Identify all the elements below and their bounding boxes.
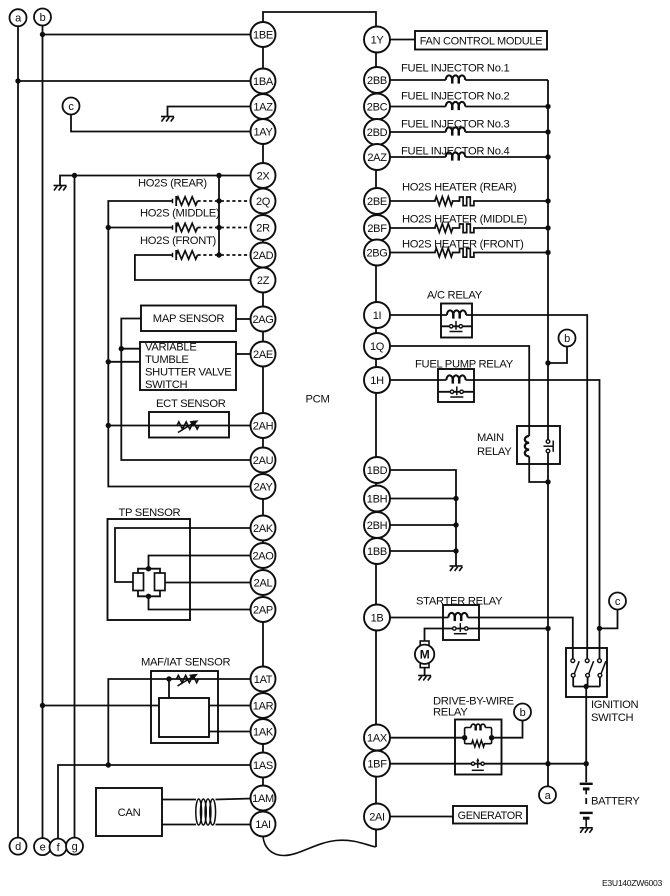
wire fuel pump contact lead: [438, 391, 474, 393]
PCM pin 2BD: [364, 119, 390, 145]
svg-text:d: d: [15, 841, 21, 853]
PCM pin 1BF: [364, 751, 390, 777]
wire 2R row: [108, 227, 172, 229]
svg-text:HO2S HEATER (MIDDLE): HO2S HEATER (MIDDLE): [402, 214, 528, 226]
wire 2AL row: [165, 582, 252, 584]
HO2S (MIDDLE) sensor cell 2R: [173, 223, 177, 233]
wire 1Q row to main relay: [390, 346, 529, 436]
svg-text:HO2S (REAR): HO2S (REAR): [138, 178, 207, 190]
wire 2X row shield: [60, 176, 252, 186]
PCM pin 1BB: [364, 538, 390, 564]
wire 2R dashed shield: [198, 227, 253, 229]
node b-1BE junction: [40, 32, 45, 37]
PCM pin 2AE: [251, 342, 276, 367]
CAN module box: [96, 788, 162, 836]
PCM pin 1AT: [251, 667, 276, 692]
wire net b vertical (left): [42, 26, 44, 839]
wire 2AK row: [115, 528, 252, 582]
wire VTSV lead 2: [108, 361, 140, 363]
node injector2 junction: [545, 104, 550, 109]
svg-text:c: c: [68, 101, 74, 113]
wire 1BE row to b: [43, 34, 253, 36]
svg-text:2AO: 2AO: [252, 550, 274, 562]
wire fuel injector No.4 row: [390, 156, 548, 158]
svg-text:2AY: 2AY: [253, 481, 273, 493]
svg-text:2BC: 2BC: [367, 101, 388, 113]
wire shield bus vertical: [218, 176, 220, 256]
wire A/C contact lead: [441, 325, 472, 327]
node a-1BA junction: [15, 78, 20, 83]
wire VTSV to 2AE: [236, 353, 252, 355]
node ECT junction: [106, 423, 111, 428]
PCM pin 2AZ: [364, 144, 390, 170]
wire 1BH row: [390, 498, 456, 500]
PCM pin 2AO: [251, 543, 276, 568]
connector c right: [609, 593, 626, 610]
DBW relay resistor: [472, 740, 485, 747]
node TP top junction: [146, 566, 151, 571]
svg-text:2R: 2R: [256, 222, 270, 234]
svg-text:ECT SENSOR: ECT SENSOR: [156, 398, 226, 410]
PCM pin 1Q: [364, 333, 390, 359]
wire starter to motor: [425, 629, 444, 642]
HO2S heater (REAR) element: [460, 197, 474, 206]
svg-text:E3U140ZW6003: E3U140ZW6003: [602, 878, 662, 888]
svg-text:2X: 2X: [257, 170, 271, 182]
PCM pin 1AM: [251, 786, 276, 811]
svg-text:2Z: 2Z: [257, 275, 270, 287]
svg-text:HO2S HEATER (REAR): HO2S HEATER (REAR): [402, 182, 517, 194]
drive-by-wire relay box: [455, 720, 502, 775]
svg-text:1Q: 1Q: [370, 341, 385, 353]
svg-text:2AP: 2AP: [253, 604, 273, 616]
node VTSV lead2 junction: [106, 359, 111, 364]
PCM pin 1B: [364, 605, 390, 631]
HO2S heater (REAR) resistor: [435, 197, 453, 206]
svg-text:SWITCH: SWITCH: [145, 379, 188, 391]
TP sensor element left: [133, 573, 144, 591]
ignition switch box: [566, 648, 607, 697]
TP sensor box: [108, 519, 191, 620]
PCM pin 1I: [364, 302, 390, 328]
connector e: [34, 838, 51, 855]
node shield 2R junction: [216, 225, 221, 230]
PCM pin 2R: [251, 215, 276, 240]
wire ignition pole3 down: [599, 677, 601, 686]
node shield 2Q junction: [216, 198, 221, 203]
PCM pin 2AH: [251, 413, 276, 438]
svg-text:HO2S HEATER (FRONT): HO2S HEATER (FRONT): [402, 239, 524, 251]
wire 1AK row: [209, 731, 252, 733]
node 1BF bus junction: [545, 761, 550, 766]
main relay coil: [525, 436, 529, 456]
wire net g vertical: [74, 176, 76, 838]
PCM pin 2AG: [251, 307, 276, 332]
wire MAF left lead to b net: [43, 705, 160, 707]
wire PCM right pin column: [375, 27, 377, 848]
PCM pin 2Q: [251, 189, 276, 214]
node IAT junction: [166, 676, 171, 681]
HO2S heater (FRONT) resistor: [435, 248, 453, 257]
ground at 2X shield: [54, 186, 67, 191]
MAP sensor box: [141, 306, 236, 332]
svg-text:MAP SENSOR: MAP SENSOR: [153, 313, 225, 325]
ignition switch pole 3: [598, 659, 606, 677]
PCM pin 1BD: [364, 457, 390, 483]
A/C relay contact: [450, 321, 463, 332]
starter relay coil: [448, 613, 467, 621]
svg-text:FUEL INJECTOR No.1: FUEL INJECTOR No.1: [401, 63, 509, 75]
PCM pin 2AK: [251, 516, 276, 541]
svg-text:CAN: CAN: [118, 807, 141, 819]
HO2S (REAR) sensor cell 2Q: [173, 196, 177, 206]
node injector3 junction: [545, 129, 550, 134]
ignition switch pole 2: [585, 659, 593, 677]
MAF/IAT outer box: [151, 671, 218, 743]
PCM pin 2AP: [251, 597, 276, 622]
wire HO2S heater (REAR) row: [390, 200, 548, 202]
wire fuel injector No.2 row: [390, 106, 548, 108]
wire ignition pole2 down: [587, 677, 589, 686]
svg-text:1AR: 1AR: [253, 700, 274, 712]
wire b to battery bus: [548, 347, 567, 364]
wire sensor return bus: [108, 228, 252, 487]
HO2S (REAR) resistor: [176, 197, 197, 205]
svg-text:RELAY: RELAY: [433, 707, 468, 719]
svg-text:1BF: 1BF: [367, 759, 387, 771]
svg-text:VARIABLE: VARIABLE: [145, 342, 197, 354]
svg-text:FAN CONTROL MODULE: FAN CONTROL MODULE: [420, 35, 543, 47]
fuel pump relay coil: [446, 375, 465, 383]
node 2Q-2R junction: [106, 225, 111, 230]
svg-text:BATTERY: BATTERY: [591, 796, 640, 808]
wire 1AZ row to ground: [168, 107, 253, 117]
PCM pin 2AU: [251, 448, 276, 473]
wire 2Q left lead: [108, 201, 172, 228]
wire VTSV lead 1: [121, 348, 140, 350]
PCM pin 2AD: [251, 243, 276, 268]
wire ignition to battery: [585, 687, 587, 783]
svg-text:2AL: 2AL: [254, 577, 273, 589]
wire fuel injector No.3 row: [390, 131, 548, 133]
wire 2Q dashed shield: [198, 200, 253, 202]
svg-text:1AI: 1AI: [255, 819, 271, 831]
wire IAT to MAF inner box: [168, 679, 170, 698]
wire CAN low right: [216, 824, 253, 826]
svg-text:c: c: [615, 596, 621, 608]
wire c to 1AY row: [71, 115, 252, 132]
wire TP top link: [138, 569, 160, 573]
wire PCM bottom break squiggle: [263, 837, 376, 856]
wire 1Y row: [390, 39, 415, 41]
fuel injector No.3 coil: [446, 127, 466, 135]
PCM pin 1BA: [251, 69, 276, 94]
wire HO2S heater (FRONT) row: [390, 252, 548, 254]
svg-text:TUMBLE: TUMBLE: [145, 354, 189, 366]
wire TP bottom link: [138, 591, 160, 597]
node c junction: [597, 626, 602, 631]
node g-2X junction: [72, 173, 77, 178]
PCM pin 1AS: [251, 753, 276, 778]
svg-text:1Y: 1Y: [371, 34, 385, 46]
svg-text:2BE: 2BE: [367, 196, 387, 208]
connector b at DBW relay: [514, 704, 531, 721]
HO2S (MIDDLE) resistor: [176, 223, 197, 231]
wire battery bus upper: [547, 80, 549, 440]
svg-text:1AX: 1AX: [367, 732, 388, 744]
main relay contact: [544, 440, 554, 453]
HO2S heater (FRONT) element: [460, 249, 474, 258]
PCM pin 2BB: [364, 67, 390, 93]
fuel injector No.2 coil: [446, 102, 466, 110]
starter relay contact: [453, 623, 468, 634]
svg-text:b: b: [40, 12, 46, 24]
node starter contact junction: [545, 626, 550, 631]
wire 1BB row: [390, 550, 456, 552]
svg-text:RELAY: RELAY: [477, 446, 512, 458]
svg-text:1AZ: 1AZ: [253, 101, 273, 113]
node 2BH junction: [453, 522, 458, 527]
svg-text:2AZ: 2AZ: [367, 152, 387, 164]
svg-text:MAIN: MAIN: [477, 432, 504, 444]
svg-text:M: M: [420, 648, 430, 662]
TP sensor element right: [155, 573, 166, 591]
svg-text:2AU: 2AU: [253, 455, 274, 467]
PCM pin 2Z: [251, 268, 276, 293]
connector a bottom: [539, 786, 556, 803]
svg-text:A/C RELAY: A/C RELAY: [427, 290, 483, 302]
wire ECT row: [108, 425, 252, 427]
svg-text:MAF/IAT SENSOR: MAF/IAT SENSOR: [141, 657, 230, 669]
node e-1AR junction: [40, 703, 45, 708]
node TP bottom junction: [146, 594, 151, 599]
wire 1AT row: [108, 679, 252, 765]
PCM pin 2AY: [251, 474, 276, 499]
node shield top junction: [216, 173, 221, 178]
svg-text:2AK: 2AK: [253, 523, 274, 535]
wire CAN low: [162, 824, 196, 826]
wire 2AO row: [149, 556, 253, 569]
node DBW left: [462, 735, 467, 740]
battery: [580, 784, 593, 827]
ECT thermistor: [177, 420, 199, 432]
wire 1I row: [390, 315, 587, 659]
PCM pin 1AX: [364, 725, 390, 751]
wire motor to ground: [424, 668, 426, 676]
wire 2AD left lead to 2Z: [135, 255, 252, 280]
node shield 2AD junction: [216, 252, 221, 257]
HO2S (FRONT) resistor: [176, 251, 197, 259]
wire 2AI row: [390, 816, 453, 818]
svg-text:2BG: 2BG: [366, 247, 387, 259]
svg-text:2AI: 2AI: [369, 811, 385, 823]
node 1BB junction: [453, 548, 458, 553]
svg-text:IGNITION: IGNITION: [591, 699, 639, 711]
wire DBW to b: [492, 721, 523, 738]
PCM pin 1AK: [251, 719, 276, 744]
PCM pin 1Y: [364, 27, 390, 53]
wire starter contact row: [443, 628, 548, 630]
svg-text:1BA: 1BA: [253, 76, 274, 88]
svg-text:2BH: 2BH: [367, 520, 388, 532]
connector g: [66, 838, 83, 855]
PCM pin 2BG: [364, 240, 390, 266]
svg-text:2Q: 2Q: [256, 196, 271, 208]
svg-text:2BF: 2BF: [367, 223, 387, 235]
svg-text:1I: 1I: [373, 310, 382, 322]
svg-text:1BB: 1BB: [367, 546, 387, 558]
fuel injector No.1 coil: [446, 75, 466, 83]
connector c left: [63, 98, 80, 115]
ground at 1BD group: [450, 566, 463, 571]
connector b top: [34, 9, 51, 26]
svg-text:e: e: [40, 842, 46, 854]
wire ignition common: [573, 686, 600, 688]
svg-text:2AD: 2AD: [253, 250, 274, 262]
wire 2AP row: [149, 596, 253, 609]
svg-text:1H: 1H: [370, 375, 384, 387]
svg-text:1AK: 1AK: [253, 726, 274, 738]
PCM pin 2BH: [364, 512, 390, 538]
wire PCM top link 1BE to 1Y: [263, 12, 376, 27]
DBW relay coil: [471, 724, 485, 730]
wire 2BH row: [390, 524, 456, 526]
svg-text:2BB: 2BB: [367, 75, 387, 87]
A/C relay box: [441, 304, 472, 338]
PCM pin 2BF: [364, 215, 390, 241]
ECT sensor box: [149, 412, 229, 438]
svg-text:SHUTTER VALVE: SHUTTER VALVE: [145, 367, 231, 379]
wire CAN high: [162, 799, 196, 801]
generator box: [453, 806, 527, 824]
PCM pin 2BC: [364, 94, 390, 120]
svg-text:1AS: 1AS: [253, 760, 273, 772]
svg-text:1BD: 1BD: [367, 465, 388, 477]
wire MAP to 2AG: [236, 318, 252, 320]
node VTSV lead1 junction: [119, 346, 124, 351]
svg-text:1AT: 1AT: [254, 674, 273, 686]
wire fuel injector No.1 row: [390, 79, 548, 81]
svg-text:1AY: 1AY: [253, 126, 273, 138]
main relay box: [517, 426, 560, 464]
node 1AS junction: [106, 762, 111, 767]
connector d: [10, 838, 27, 855]
node 1BH junction: [453, 496, 458, 501]
svg-text:GENERATOR: GENERATOR: [458, 810, 523, 822]
svg-text:1BH: 1BH: [367, 493, 388, 505]
svg-text:SWITCH: SWITCH: [591, 712, 634, 724]
PCM pin 2AL: [251, 570, 276, 595]
PCM pin 1AI: [251, 812, 276, 837]
svg-text:HO2S (MIDDLE): HO2S (MIDDLE): [140, 208, 220, 220]
wire HO2S heater (MIDDLE) row: [390, 227, 548, 229]
connector f: [50, 839, 67, 856]
HO2S heater (MIDDLE) element: [460, 224, 474, 233]
PCM pin 2BE: [364, 188, 390, 214]
node heater (MIDDLE) junction: [545, 225, 550, 230]
MAF inner box: [159, 698, 209, 737]
svg-text:1BE: 1BE: [253, 29, 273, 41]
PCM pin 1AR: [251, 693, 276, 718]
wire 1B row coil: [390, 618, 573, 659]
node heater (REAR) junction: [545, 198, 550, 203]
wire 1AR row right: [209, 705, 252, 707]
twisted pair coil: [196, 799, 216, 825]
fuel injector No.4 coil: [446, 152, 466, 160]
node 1BF battery junction: [584, 761, 589, 766]
node injector4 junction: [545, 154, 550, 159]
DBW relay contact: [471, 758, 484, 771]
ground at battery: [580, 828, 593, 833]
svg-text:FUEL INJECTOR No.2: FUEL INJECTOR No.2: [401, 91, 509, 103]
wire CAN high right: [216, 799, 253, 800]
svg-text:g: g: [72, 841, 78, 853]
PCM pin 2X: [251, 163, 276, 188]
DBW parallel branch frame: [465, 728, 492, 744]
wire battery bus lower: [547, 453, 549, 787]
svg-text:2AE: 2AE: [253, 349, 273, 361]
PCM pin 2AI: [364, 804, 390, 830]
variable tumble shutter valve switch box: [140, 342, 236, 390]
wire 1AS row to f: [58, 765, 252, 839]
fuel pump relay box: [438, 369, 474, 402]
svg-text:b: b: [564, 333, 570, 345]
node main relay return junction: [545, 479, 550, 484]
wire 1BA row to a: [18, 80, 252, 82]
wire net a vertical (left): [17, 26, 19, 837]
wire 1AX row: [390, 737, 465, 739]
wire MAP left lead to 2AU: [121, 319, 252, 461]
PCM pin 1BE: [251, 22, 276, 47]
fan control module box: [415, 31, 547, 50]
wire 1H row: [390, 380, 600, 659]
PCM pin 1BH: [364, 486, 390, 512]
svg-text:2BD: 2BD: [367, 127, 388, 139]
ground at 1AZ: [161, 117, 174, 122]
connector a top: [10, 9, 27, 26]
wire 2AD dashed shield: [198, 254, 253, 256]
svg-text:PCM: PCM: [306, 394, 330, 406]
node DBW right: [489, 735, 494, 740]
wire PCM left pin column: [262, 22, 264, 837]
HO2S (FRONT) sensor cell 2AD: [173, 250, 177, 260]
PCM pin 1H: [364, 367, 390, 393]
svg-text:1AM: 1AM: [252, 793, 274, 805]
svg-text:b: b: [520, 707, 526, 719]
svg-text:FUEL INJECTOR No.3: FUEL INJECTOR No.3: [401, 119, 509, 131]
node ignition common junction: [584, 684, 589, 689]
HO2S heater (MIDDLE) resistor: [435, 224, 453, 233]
ground at motor: [418, 676, 431, 681]
svg-text:1B: 1B: [371, 612, 384, 624]
PCM pin 1AZ: [251, 94, 276, 119]
svg-text:TP SENSOR: TP SENSOR: [119, 507, 181, 519]
wire ignition pole1 down: [572, 677, 574, 686]
node heater (FRONT) junction: [545, 250, 550, 255]
node b junction on bus: [545, 360, 550, 365]
starter motor M: [415, 641, 434, 668]
ignition switch pole 1: [571, 659, 579, 677]
IAT thermistor: [177, 674, 199, 686]
connector b right: [559, 330, 576, 347]
fuel pump relay contact: [450, 386, 463, 397]
svg-text:2AH: 2AH: [253, 420, 274, 432]
A/C relay coil: [447, 310, 466, 318]
wire c to fuel pump line: [600, 610, 618, 629]
wire 1BD row: [390, 470, 456, 566]
svg-text:2AG: 2AG: [252, 314, 273, 326]
starter relay box: [443, 605, 479, 640]
